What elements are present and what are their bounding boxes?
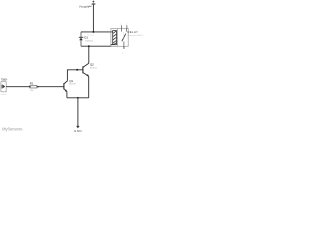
wire Q2 base pin [77,69,83,71]
svg-text:GND: GND [74,129,82,133]
wire collector drop to Q2 [88,46,90,63]
svg-text:1N4004: 1N4004 [85,41,93,43]
svg-text:conn1: conn1 [1,94,8,96]
node ground junction [77,97,79,99]
svg-text:A: A [122,51,124,55]
wire Q1 collector to Q2 base [67,70,77,81]
wire top rail to relay coil [81,31,111,33]
resistor R1 [30,85,37,88]
node supply/top-rail junction [92,31,94,33]
supply symbol Vsupply [92,1,96,4]
ground [76,126,79,128]
relay K1 outline [111,29,128,47]
wire ground drop [77,98,79,126]
pin stub common [123,46,125,49]
node R1 right terminal [37,86,39,88]
relay coil hatched [111,31,117,45]
wire emitter rail [67,97,89,99]
transistor Q1 [64,81,68,92]
wire label to supply stem [89,5,92,7]
diode D1 [79,32,84,46]
wire Q1 emitter down [66,92,68,98]
svg-text:MySensors: MySensors [2,127,23,132]
svg-text:Vsupply: Vsupply [79,5,90,9]
svg-text:D1: D1 [84,36,88,40]
svg-text:TOUCH: TOUCH [1,78,7,82]
wire supply stem [92,5,94,32]
svg-text:BC547: BC547 [69,84,76,86]
connector box [1,82,6,92]
transistor Q2 [83,63,89,76]
svg-text:BC547: BC547 [90,67,97,69]
wire R1 to Q1 base [37,86,64,88]
svg-text:RELAY: RELAY [127,30,138,34]
Q2 emitter arrow [87,74,89,76]
svg-text:Omron-G5CL: Omron-G5CL [127,34,144,37]
wire input to R1 [6,86,30,88]
node collector junction [88,45,90,47]
svg-text:R1: R1 [30,82,34,86]
svg-text:Q1: Q1 [69,79,73,83]
svg-text:Q2: Q2 [90,63,94,67]
connector pin symbol [1,85,3,89]
node R1 left terminal [29,86,31,88]
wire Q2 emitter down [88,76,90,98]
node Q2 base bendpoint [76,69,78,71]
Q1 emitter arrow [65,89,67,91]
svg-text:5v coil: 5v coil [87,34,94,37]
pin stub NC [126,25,128,28]
relay switch [121,29,126,47]
wire bottom rail D1 to relay coil [81,45,113,47]
pin stub NO [120,25,122,28]
